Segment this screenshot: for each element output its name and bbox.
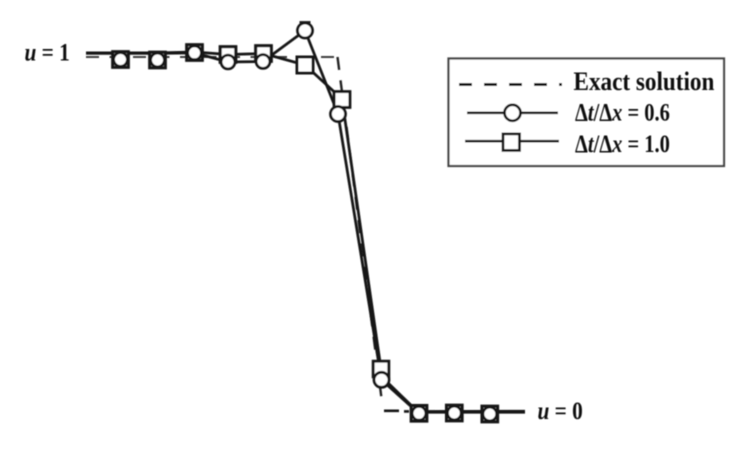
- square marker S11: [482, 406, 498, 422]
- legend circle marker: [505, 105, 521, 121]
- svg-text:u = 0: u = 0: [538, 397, 583, 425]
- square marker S4: [220, 47, 236, 63]
- square marker S6: [297, 57, 313, 73]
- circle marker C1: [114, 53, 128, 67]
- legend box: [449, 59, 725, 167]
- wire: circle curve (dt/dx=0.6) polyline: [86, 31, 525, 413]
- svg-text:Δt/Δx = 0.6: Δt/Δx = 0.6: [575, 99, 670, 126]
- circle marker C2: [151, 53, 165, 67]
- circle marker C10: [447, 406, 461, 420]
- square marker S1: [113, 52, 129, 68]
- circle marker C3: [188, 46, 202, 60]
- square marker S3: [187, 45, 203, 61]
- circle marker C4: [221, 55, 235, 69]
- square marker S5: [256, 46, 272, 62]
- square marker S9: [411, 406, 427, 422]
- circle marker C6 (peak): [298, 23, 313, 38]
- circle marker C11: [483, 407, 497, 421]
- exact solution dashed line (top horizontal): [86, 56, 337, 58]
- svg-text:Exact solution: Exact solution: [574, 68, 715, 97]
- legend circle line sample: [467, 112, 558, 115]
- exact solution dashed line (bottom dash): [384, 409, 409, 412]
- legend dashed line sample: [459, 83, 562, 86]
- exact solution dashed line (diagonal drop): [338, 57, 383, 402]
- svg-text:Δt/Δx = 1.0: Δt/Δx = 1.0: [575, 130, 670, 157]
- square marker S8: [373, 361, 389, 377]
- legend square marker: [503, 134, 520, 151]
- square marker S7: [334, 92, 350, 108]
- circle marker C5: [256, 55, 270, 69]
- circle marker C7: [331, 107, 346, 122]
- legend square line sample: [465, 140, 559, 143]
- circle marker C9: [412, 406, 426, 420]
- square marker S2: [150, 52, 166, 68]
- circle marker C8: [374, 372, 389, 387]
- peak circle top artifact bar: [300, 21, 311, 23]
- square marker S10: [447, 405, 463, 421]
- svg-text:u = 1: u = 1: [25, 39, 70, 67]
- wire: square curve (dt/dx=1.0) polyline: [86, 52, 525, 412]
